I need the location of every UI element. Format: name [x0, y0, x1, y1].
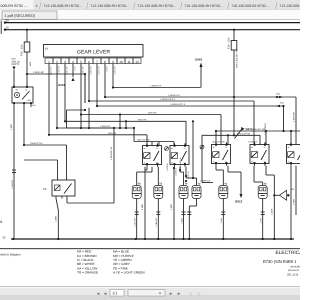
- svg-text:87: 87: [156, 161, 158, 164]
- ground G013: [235, 194, 243, 204]
- wire MA5-1UP-KR: [202, 132, 260, 144]
- svg-text:1.5KR: 1.5KR: [55, 216, 58, 222]
- svg-text:MA5-CIK-TAB: MA5-CIK-TAB: [137, 139, 150, 142]
- svg-text:1.5MR: 1.5MR: [105, 66, 108, 72]
- wire R3 to Y1: [216, 166, 223, 186]
- svg-text:85: 85: [213, 160, 215, 163]
- connector Y1: [219, 183, 228, 199]
- svg-text:1 KR-TR: 1 KR-TR: [57, 66, 60, 74]
- svg-text:GEAR LEVER: GEAR LEVER: [77, 50, 110, 56]
- wire MA5-AP1-KR: [215, 128, 300, 145]
- svg-text:1.5KR: 1.5KR: [170, 204, 173, 210]
- document tab 1.pdf (SECURED): [0, 10, 300, 20]
- svg-text:45W (4): 45W (4): [12, 60, 20, 63]
- svg-text:MA5-AP1-KR: MA5-AP1-KR: [252, 128, 266, 131]
- svg-text:1.5MA-KR: 1.5MA-KR: [293, 111, 296, 122]
- wire distribution: [104, 64, 296, 145]
- wire R3 to G013: [228, 166, 241, 194]
- svg-text:nted in Belgium: nted in Belgium: [0, 253, 21, 257]
- svg-text:1.5IV: 1.5IV: [73, 66, 76, 71]
- svg-text:1.5MA9-AIP7-S: 1.5MA9-AIP7-S: [170, 103, 186, 106]
- wire T3 to bus 31: [187, 199, 196, 240]
- svg-text:31: 31: [3, 235, 7, 239]
- ground G001: [58, 64, 75, 88]
- svg-text:1.5OR: 1.5OR: [270, 208, 273, 215]
- wire R1 feed: [133, 127, 174, 146]
- svg-text:G001: G001: [58, 83, 65, 87]
- connector T5: [154, 183, 163, 199]
- bus 15: [4, 26, 300, 31]
- svg-text:1.0SA: 1.0SA: [220, 217, 223, 223]
- svg-text:86: 86: [251, 146, 253, 149]
- svg-text:713-136-00B-RH B730...: 713-136-00B-RH B730...: [90, 4, 129, 8]
- wire R3 top label: [213, 141, 258, 144]
- wire pin6 extension: [88, 108, 90, 129]
- legend color codes: [77, 250, 145, 275]
- svg-text:B: B: [0, 220, 2, 224]
- svg-text:30: 30: [264, 146, 266, 149]
- svg-text:1.0KR: 1.0KR: [293, 199, 296, 205]
- relay K4: [43, 178, 75, 199]
- svg-text:►: ►: [177, 291, 181, 296]
- svg-text:6: 6: [88, 60, 90, 64]
- wire K4 to bus 31: [55, 199, 59, 240]
- wire distribution: [96, 64, 284, 132]
- junction F14 line: [233, 96, 235, 98]
- svg-text:1.5MA: 1.5MA: [180, 217, 183, 223]
- relay K9: [287, 142, 306, 165]
- wire R1 to bus: [141, 167, 147, 239]
- svg-text:1.5YE KR: 1.5YE KR: [113, 66, 116, 75]
- svg-text:87: 87: [225, 160, 227, 163]
- ignition switch K1: [12, 85, 36, 108]
- svg-text:85: 85: [171, 161, 173, 164]
- wire K1 to bus 31: [10, 106, 16, 240]
- wire 1 BAU-SP: [26, 71, 85, 103]
- svg-text:K40: K40: [12, 58, 17, 61]
- svg-text:◄: ◄: [103, 291, 107, 296]
- svg-text:30: 30: [184, 147, 186, 150]
- wire R2 to T4: [179, 167, 184, 186]
- svg-text:1.5BE-KR: 1.5BE-KR: [155, 217, 158, 226]
- wire pin5 extension: [80, 115, 82, 130]
- svg-text:►: ►: [169, 291, 173, 296]
- bus 31: [3, 235, 295, 240]
- svg-text:G043: G043: [195, 58, 202, 62]
- svg-text:K4: K4: [43, 187, 47, 191]
- svg-text:EMPTY: EMPTY: [12, 63, 20, 66]
- svg-text:1: 1: [48, 60, 50, 64]
- svg-text:86: 86: [171, 147, 173, 150]
- svg-text:MA5-RE: MA5-RE: [108, 132, 117, 135]
- wire R5 pin2: [293, 166, 297, 215]
- svg-text:86: 86: [213, 146, 215, 149]
- svg-text:1.5KR/TR: 1.5KR/TR: [11, 179, 14, 188]
- svg-text:2: 2: [56, 60, 58, 64]
- connector T6: [132, 183, 141, 199]
- svg-text:1.5MA9-AIP3-S: 1.5MA9-AIP3-S: [160, 98, 176, 101]
- svg-text:◄: ◄: [96, 291, 100, 296]
- wire R2 to T3: [179, 157, 197, 185]
- connector T4: [179, 183, 188, 199]
- svg-text:G013: G013: [235, 200, 243, 204]
- frame line: [0, 248, 300, 250]
- wire to bus 31: [220, 199, 225, 240]
- svg-text:F14 - 15A: F14 - 15A: [228, 37, 231, 49]
- svg-text:1 BAU-SP: 1 BAU-SP: [33, 71, 44, 74]
- diode symbol K6-K7: [200, 145, 204, 149]
- svg-text:ELECTRICAL SCH: ELECTRICAL SCH: [276, 250, 301, 256]
- wire R5 to bus: [290, 166, 292, 239]
- svg-text:1.5MA KR: 1.5MA KR: [65, 66, 68, 75]
- wire distribution: [80, 64, 221, 146]
- diode symbol K5-K6: [165, 147, 169, 151]
- relay K5: [143, 143, 162, 166]
- svg-text:12: 12: [135, 60, 139, 64]
- svg-text:713-136-009-B2 B7: 713-136-009-B2 B7: [279, 4, 300, 8]
- svg-text:710-136-009-B2 B730...: 710-136-009-B2 B730...: [231, 4, 268, 8]
- bottom viewer toolbar: [0, 287, 300, 300]
- svg-text:85: 85: [288, 160, 290, 163]
- relay K6: [170, 143, 189, 166]
- connector Y2: [258, 183, 267, 199]
- wire R1 to T5: [157, 167, 159, 186]
- svg-text:1.5MA/GF-05: 1.5MA/GF-05: [110, 146, 113, 160]
- svg-text:1.5MA9-UP: 1.5MA9-UP: [150, 85, 162, 88]
- fuse F14 - 15A: [228, 29, 239, 136]
- page frame mark B: [0, 21, 2, 225]
- svg-text:1.5MA-A: 1.5MA-A: [175, 168, 178, 176]
- svg-text:85: 85: [144, 161, 146, 164]
- svg-text:1.5MA OR: 1.5MA OR: [97, 66, 100, 75]
- svg-text:1.5SA-KR: 1.5SA-KR: [134, 217, 137, 226]
- K3 pin row 1-12: [45, 58, 141, 64]
- svg-text:4: 4: [72, 60, 74, 64]
- svg-text:710-136-00B-RH B730...: 710-136-00B-RH B730...: [184, 4, 223, 8]
- browser tab bar: [0, 0, 310, 10]
- wire R4 to Y2: [254, 166, 263, 186]
- svg-text:15: 15: [6, 26, 10, 30]
- svg-text:201.12 B: 201.12 B: [287, 272, 298, 276]
- svg-text:1.5BE: 1.5BE: [141, 204, 144, 210]
- relay slot K40 note: [12, 58, 20, 88]
- wire TA05-0P7TA: [23, 106, 67, 178]
- svg-text:MA5 1.5(0.497-TA): MA5 1.5(0.497-TA): [236, 49, 239, 68]
- svg-text:3: 3: [64, 60, 66, 64]
- svg-text:F30 - 15A: F30 - 15A: [21, 44, 24, 56]
- svg-text:▾: ▾: [159, 291, 161, 296]
- wire distribution: [112, 64, 201, 89]
- svg-text:30: 30: [6, 19, 10, 23]
- wire distribution: [48, 64, 147, 146]
- fuse F30 - 15A: [21, 29, 32, 87]
- svg-text:1.5KR: 1.5KR: [10, 124, 13, 130]
- svg-text:8: 8: [104, 60, 106, 64]
- wire distribution: [56, 64, 134, 130]
- svg-text:30: 30: [156, 147, 158, 150]
- svg-text:1.5BE KR: 1.5BE KR: [89, 66, 92, 75]
- net arrow KA5: [276, 93, 283, 99]
- wire R2 bottom labels: [166, 163, 190, 182]
- relay K8: [250, 142, 269, 165]
- svg-text:1.5MA-AP1-A: 1.5MA-AP1-A: [179, 157, 182, 170]
- svg-text:K3: K3: [45, 48, 49, 51]
- wire R1 to T6: [137, 167, 152, 186]
- bus 30: [4, 19, 300, 24]
- wire distribution: [88, 64, 254, 146]
- horn H2: [274, 188, 295, 200]
- wire R4 to bus: [266, 166, 275, 239]
- wire jog 2: [125, 120, 127, 129]
- wire to bus 31: [134, 199, 139, 240]
- svg-text:00B-RH B730 ....: 00B-RH B730 ....: [1, 4, 28, 8]
- svg-text:86: 86: [144, 147, 146, 150]
- relay K7: [212, 142, 231, 165]
- wire to bus 31: [260, 199, 265, 240]
- svg-text:MA5-PIE: MA5-PIE: [148, 112, 157, 115]
- svg-text:TA05-0P7TA: TA05-0P7TA: [30, 142, 43, 145]
- wire labels: [100, 85, 186, 135]
- title text: [263, 250, 317, 277]
- svg-text:1.0KC-A: 1.0KC-A: [187, 171, 190, 179]
- wire label 1.0MA-DA: [200, 180, 213, 183]
- svg-text:30: 30: [225, 146, 227, 149]
- wire to bus 31: [155, 199, 160, 240]
- svg-text:87: 87: [184, 161, 186, 164]
- net arrow KA6: [276, 102, 285, 133]
- svg-text:1.5MA/KOR: 1.5MA/KOR: [264, 123, 267, 135]
- svg-text:MA5-PIK: MA5-PIK: [138, 119, 147, 122]
- gear lever K3: [44, 45, 144, 58]
- svg-text:7: 7: [96, 60, 98, 64]
- svg-text:10: 10: [119, 60, 123, 64]
- wire R2 to bus: [170, 167, 174, 239]
- svg-text:1.5SA KR: 1.5SA KR: [81, 66, 84, 75]
- svg-text:TR = ORANGE: TR = ORANGE: [77, 271, 98, 275]
- svg-text:713-136-00B-RH B730...: 713-136-00B-RH B730...: [43, 4, 82, 8]
- svg-text:1.5MA9-ALL: 1.5MA9-ALL: [168, 94, 181, 97]
- svg-text:B730 (S/N B4B9 1: B730 (S/N B4B9 1: [263, 259, 297, 264]
- svg-text:1.pdf (SECURED): 1.pdf (SECURED): [5, 14, 36, 18]
- svg-text:1.0MA-DA: 1.0MA-DA: [200, 180, 211, 183]
- node G043: [195, 58, 203, 88]
- wire to bus 31: [180, 199, 185, 240]
- svg-text:1.5KR-B: 1.5KR-B: [166, 163, 169, 171]
- svg-text:1/1: 1/1: [112, 291, 118, 296]
- svg-text:86: 86: [288, 146, 290, 149]
- wire loop to K4: [67, 73, 116, 203]
- K3 pin wires: [49, 66, 116, 75]
- svg-text:85: 85: [251, 160, 253, 163]
- svg-text:G011: G011: [246, 127, 253, 131]
- wire distribution: [64, 64, 186, 146]
- connector T3: [192, 183, 201, 199]
- node G011: [235, 127, 253, 139]
- wire gap vertical: [201, 135, 203, 182]
- svg-text:1.0YE: 1.0YE: [260, 217, 263, 223]
- svg-text:9: 9: [112, 60, 114, 64]
- svg-text:A.YE = LIGHT GREEN: A.YE = LIGHT GREEN: [113, 271, 145, 275]
- svg-text:1.5MA-AP: 1.5MA-AP: [248, 141, 258, 144]
- wire jog to T3: [119, 113, 194, 179]
- svg-text:5: 5: [80, 60, 82, 64]
- svg-text:713-136-00B-RH B730...: 713-136-00B-RH B730...: [137, 4, 176, 8]
- svg-text:11: 11: [127, 60, 131, 64]
- svg-text:87: 87: [264, 160, 266, 163]
- svg-text:MA5-AP1-KR: MA5-AP1-KR: [213, 141, 226, 144]
- svg-text:1 BAU-SP: 1 BAU-SP: [49, 66, 52, 75]
